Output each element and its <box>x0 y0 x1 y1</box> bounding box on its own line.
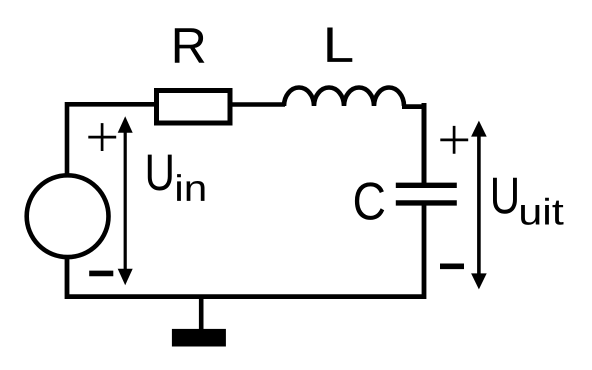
capacitor C bottom plate <box>396 200 457 205</box>
Uin arrow head up <box>118 116 133 133</box>
Uuit arrow head up <box>471 121 487 137</box>
minus sign (Uuit) <box>440 264 464 270</box>
ground stub <box>199 297 204 330</box>
Uin arrow shaft <box>124 131 127 272</box>
ground bar <box>172 329 226 347</box>
label C <box>355 182 384 220</box>
plus sign (Uin) <box>88 123 116 151</box>
wire inductor to right corner <box>402 104 424 109</box>
capacitor C top plate <box>396 183 457 188</box>
plus sign (Uuit) <box>440 126 468 154</box>
wire right vertical top (to capacitor) <box>422 103 427 184</box>
wire top-left corner (source to resistor) <box>67 104 156 175</box>
label Uin <box>148 155 172 191</box>
label Uuit <box>493 178 517 214</box>
inductor L <box>284 88 404 107</box>
Uuit arrow shaft <box>477 135 481 276</box>
wire resistor to inductor <box>230 102 285 107</box>
label R <box>175 28 205 62</box>
Uuit arrow head down <box>471 273 487 289</box>
label L <box>327 28 352 62</box>
voltage source V1 <box>27 175 109 257</box>
resistor R <box>157 91 231 124</box>
minus sign (Uin) <box>89 271 113 277</box>
wire source bottom to bottom rail <box>67 204 424 297</box>
Uin arrow head down <box>118 269 133 286</box>
